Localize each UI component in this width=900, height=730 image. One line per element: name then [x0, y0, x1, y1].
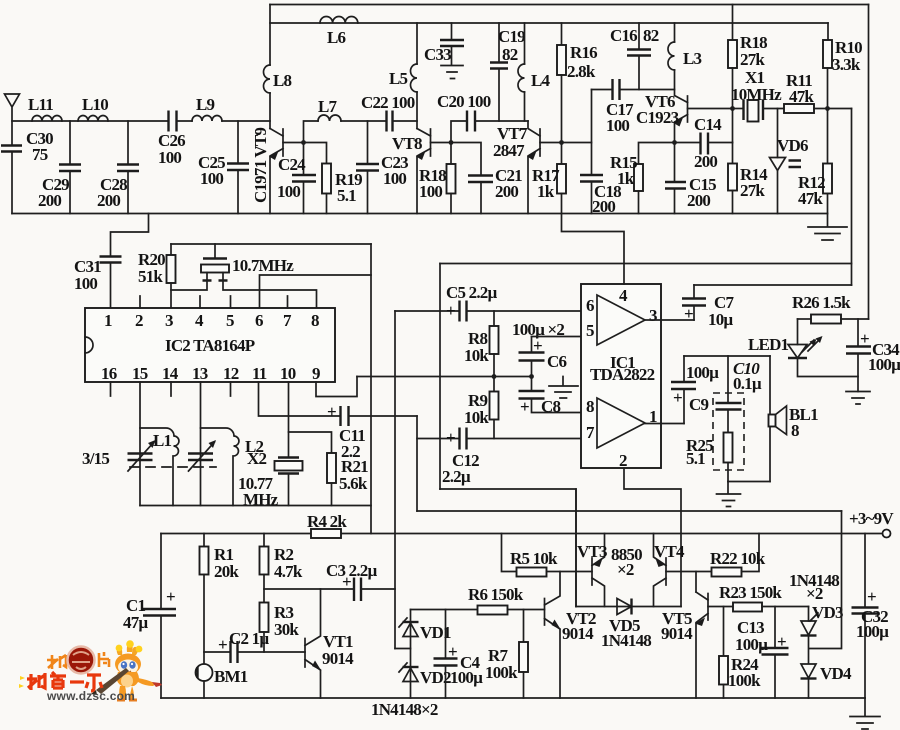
svg-text:R22 10k: R22 10k — [710, 549, 766, 568]
antenna — [5, 94, 20, 145]
inductor L3 — [674, 23, 676, 42]
svg-text:100k: 100k — [728, 671, 761, 690]
svg-text:C24: C24 — [278, 155, 306, 174]
capacitor C28 — [127, 121, 129, 164]
svg-text:200: 200 — [694, 152, 717, 171]
svg-text:C6: C6 — [547, 352, 566, 371]
capacitor C5 — [395, 310, 459, 312]
watermark small sparks — [19, 676, 25, 688]
wire L5 to VT8 — [416, 92, 418, 129]
terminal +3~9V — [883, 530, 891, 538]
resistor R18 (27k) — [732, 5, 734, 41]
svg-text:200: 200 — [38, 191, 61, 210]
LED LED1 — [797, 319, 799, 345]
wire pin13 tank line — [200, 382, 202, 506]
wire volume mid line — [357, 376, 532, 378]
svg-text:200: 200 — [495, 182, 518, 201]
transistor VT3 — [591, 558, 593, 585]
svg-text:2: 2 — [619, 451, 627, 470]
capacitor C9 — [683, 389, 685, 424]
svg-text:5: 5 — [586, 321, 594, 340]
svg-text:7: 7 — [586, 423, 595, 442]
resistor R16 — [561, 23, 563, 45]
wire TX riser to diodes — [395, 648, 411, 650]
svg-text:4: 4 — [619, 286, 628, 305]
svg-text:L8: L8 — [273, 71, 292, 90]
svg-text:X2: X2 — [247, 449, 266, 468]
svg-text:C9: C9 — [689, 395, 708, 414]
wire R6 line — [411, 609, 545, 611]
svg-text:LED1: LED1 — [748, 335, 789, 354]
node VT9 base junction — [301, 140, 306, 145]
svg-text:27k: 27k — [740, 181, 765, 200]
svg-text:C22 100: C22 100 — [361, 93, 415, 112]
transistor VT8 — [417, 129, 431, 137]
svg-text:L3: L3 — [683, 49, 702, 68]
svg-text:30k: 30k — [274, 620, 299, 639]
wire VT5 base line — [708, 606, 733, 608]
svg-text:47µ: 47µ — [123, 613, 148, 632]
ground C34 — [846, 392, 870, 405]
svg-text:R26 1.5k: R26 1.5k — [792, 293, 851, 312]
wire supply drop V1 — [851, 109, 853, 286]
capacitor C13 — [774, 607, 776, 649]
resistor R11 — [784, 104, 814, 113]
svg-text:2.2: 2.2 — [341, 442, 360, 461]
resistor R2 — [263, 534, 265, 547]
svg-text:C8: C8 — [541, 397, 560, 416]
svg-text:www.dzsc.com: www.dzsc.com — [46, 689, 135, 703]
svg-text:11: 11 — [252, 364, 267, 383]
svg-text:47k: 47k — [789, 87, 814, 106]
watermark magnifier stamp — [68, 647, 95, 674]
diode VD1 — [410, 610, 412, 699]
ground RF right — [808, 214, 847, 241]
svg-text:1: 1 — [104, 311, 112, 330]
wire IC2 right bypass — [370, 244, 372, 506]
svg-text:1N4148×2: 1N4148×2 — [371, 700, 438, 719]
svg-text:L9: L9 — [196, 95, 215, 114]
svg-text:14: 14 — [162, 364, 179, 383]
inductor L2 — [201, 428, 239, 506]
svg-text:0.1µ: 0.1µ — [733, 374, 762, 393]
svg-text:13: 13 — [192, 364, 208, 383]
IC1 box — [581, 284, 661, 468]
op-amp A2 — [597, 398, 645, 448]
svg-text:8: 8 — [586, 397, 594, 416]
wire pin9 to volume line — [316, 377, 357, 397]
diode VD5 — [576, 606, 681, 608]
capacitor C4 — [445, 610, 447, 659]
inductor L11 — [32, 116, 62, 122]
svg-text:L1: L1 — [153, 431, 172, 450]
svg-text:9014: 9014 — [562, 624, 594, 643]
svg-text:100µ: 100µ — [868, 355, 900, 374]
capacitor C33 — [451, 23, 453, 40]
transistor VT7 — [528, 121, 540, 136]
wire L9 to VT9 — [222, 120, 270, 122]
svg-text:+: + — [867, 587, 876, 606]
capacitor C10 dashed box — [713, 393, 744, 470]
capacitor C22 — [341, 120, 386, 122]
resistor R1 — [203, 534, 205, 547]
dashed coupling line — [130, 466, 216, 468]
svg-text:9014: 9014 — [661, 624, 693, 643]
wire C7 supply line H2 — [694, 284, 852, 286]
wire L8 to VT9 collector — [269, 93, 271, 129]
ceramic filter 10.7MHz — [214, 244, 216, 258]
crystal X1 — [733, 108, 744, 110]
diode VD4 — [801, 664, 816, 678]
svg-text:200: 200 — [687, 191, 710, 210]
svg-text:R16: R16 — [570, 43, 597, 62]
IC2 box — [85, 308, 335, 382]
crystal X2 — [278, 458, 299, 474]
resistor R7 — [523, 610, 525, 643]
capacitor C7 — [682, 299, 706, 306]
svg-text:C3 2.2µ: C3 2.2µ — [326, 561, 377, 580]
inductor L10 — [78, 116, 108, 122]
capacitor C19 — [498, 23, 500, 62]
capacitor C32 — [864, 534, 866, 608]
svg-text:100: 100 — [158, 148, 181, 167]
diode VD2 — [403, 666, 419, 668]
svg-text:TDA2822: TDA2822 — [590, 365, 655, 384]
resistor R14 — [732, 143, 734, 164]
svg-text:10: 10 — [280, 364, 296, 383]
resistor R15 — [639, 143, 675, 165]
node VT7 base — [559, 140, 564, 145]
svg-text:1k: 1k — [617, 169, 635, 188]
svg-text:C2 1µ: C2 1µ — [229, 629, 269, 648]
svg-text:100: 100 — [277, 182, 300, 201]
wire top supply rail — [270, 4, 869, 6]
resistor R17 — [561, 143, 563, 165]
svg-text:7: 7 — [283, 311, 292, 330]
resistor R20 — [170, 244, 172, 255]
svg-text:82: 82 — [502, 45, 518, 64]
svg-text:10MHz: 10MHz — [731, 85, 782, 104]
node VT6 emitter junction — [672, 140, 677, 145]
svg-text:9014: 9014 — [322, 649, 354, 668]
capacitor C25 — [237, 121, 239, 164]
svg-text:100: 100 — [74, 274, 97, 293]
svg-text:47k: 47k — [798, 189, 823, 208]
inductor L7 — [318, 115, 341, 121]
svg-text:C16: C16 — [610, 26, 637, 45]
svg-text:6: 6 — [255, 311, 263, 330]
svg-text:10k: 10k — [464, 346, 489, 365]
capacitor C8 — [531, 377, 533, 392]
svg-text:IC2 TA8164P: IC2 TA8164P — [165, 336, 255, 355]
svg-text:+: + — [166, 587, 175, 606]
inductor L4 — [524, 23, 526, 64]
svg-text:+: + — [218, 635, 227, 654]
svg-text:5.1: 5.1 — [686, 449, 705, 468]
svg-text:3: 3 — [649, 306, 657, 325]
wire RF bottom rail — [12, 213, 828, 215]
ground mid audio — [549, 377, 578, 399]
svg-text:3/15: 3/15 — [82, 449, 109, 468]
wire squelch drop left — [575, 489, 577, 607]
node VT8 base — [449, 140, 454, 145]
resistor R24 — [723, 607, 725, 657]
pin stubs top — [140, 296, 288, 308]
wire second supply line — [270, 22, 828, 24]
speaker BL1 — [769, 356, 771, 482]
svg-text:L10: L10 — [82, 95, 108, 114]
svg-text:×2: ×2 — [617, 560, 634, 579]
svg-text:1k: 1k — [537, 182, 555, 201]
wire audio box top edge — [440, 263, 852, 265]
wire VT4 base line — [666, 571, 712, 573]
watermark char pian — [99, 652, 109, 667]
svg-text:L7: L7 — [318, 97, 338, 116]
svg-text:1N4148: 1N4148 — [601, 631, 651, 650]
capacitor C21 — [468, 176, 493, 183]
wire TX audio riser — [394, 311, 396, 649]
wire audio box bottom edge — [440, 489, 576, 607]
svg-text:R23 150k: R23 150k — [719, 583, 782, 602]
svg-text:×2: ×2 — [806, 584, 823, 603]
capacitor C15 — [674, 143, 676, 183]
svg-text:200: 200 — [592, 197, 615, 216]
trimmer L2 left — [188, 454, 213, 461]
svg-text:10.7MHz: 10.7MHz — [232, 256, 294, 275]
resistor R23 — [733, 603, 762, 612]
transistor VT4 — [665, 558, 667, 585]
trimmer 3/15 — [128, 454, 153, 461]
capacitor C18 — [591, 90, 593, 176]
wire pin11 to C11 — [259, 382, 341, 416]
wire pin1 feed — [111, 214, 149, 257]
svg-text:5: 5 — [226, 311, 234, 330]
svg-text:100µ: 100µ — [856, 622, 889, 641]
watermark text weiku — [27, 672, 102, 691]
node R11 R10 junction — [825, 106, 830, 111]
wire L8 top lead — [269, 5, 271, 66]
svg-text:BM1: BM1 — [214, 667, 248, 686]
svg-text:15: 15 — [132, 364, 148, 383]
svg-text:2847: 2847 — [493, 141, 525, 160]
wire antenna filter line — [12, 120, 169, 122]
wire VT5 collector riser — [695, 572, 697, 593]
svg-text:C14: C14 — [694, 115, 722, 134]
svg-text:+: + — [520, 397, 529, 416]
node R8 R9 junction — [492, 374, 497, 379]
capacitor C12 — [417, 438, 459, 440]
resistor R26 — [798, 318, 812, 320]
inductor L9 — [192, 116, 222, 122]
svg-text:VT4: VT4 — [654, 542, 685, 561]
svg-text:+: + — [777, 632, 786, 651]
wire pin15 tank line — [139, 382, 141, 506]
svg-text:+: + — [327, 402, 336, 421]
wire pin3 output — [645, 319, 694, 321]
watermark mascot — [91, 640, 162, 700]
wire C11 audio drop — [416, 416, 418, 511]
capacitor C2 — [204, 651, 230, 653]
capacitor C17 — [592, 89, 613, 91]
resistor R25 — [727, 410, 729, 433]
resistor R22 — [712, 568, 742, 577]
svg-text:5.6k: 5.6k — [339, 474, 368, 493]
svg-text:100: 100 — [419, 182, 442, 201]
svg-text:100µ: 100µ — [450, 668, 483, 687]
svg-text:R6 150k: R6 150k — [468, 585, 524, 604]
svg-text:+: + — [446, 301, 455, 320]
wire pin4 supply — [562, 214, 625, 285]
wire pin5 line — [532, 336, 582, 338]
svg-text:10k: 10k — [464, 408, 489, 427]
inductor L5 — [416, 23, 418, 64]
resistor R18 (100) — [450, 143, 452, 165]
capacitor C34 — [857, 319, 859, 346]
transistor VT2 — [544, 599, 546, 626]
wire pin2 loop — [624, 468, 681, 607]
svg-text:4.7k: 4.7k — [274, 562, 303, 581]
svg-text:C5 2.2µ: C5 2.2µ — [446, 283, 497, 302]
svg-text:2.2µ: 2.2µ — [442, 467, 471, 486]
svg-text:C33: C33 — [424, 45, 451, 64]
svg-text:+: + — [860, 329, 869, 348]
microphone BM1 — [196, 664, 213, 681]
ground below C33 — [441, 66, 463, 79]
svg-text:20k: 20k — [214, 562, 239, 581]
resistor R3 — [260, 603, 269, 633]
svg-text:L5: L5 — [389, 69, 408, 88]
capacitor C24 — [303, 143, 305, 176]
svg-text:100µ: 100µ — [735, 635, 768, 654]
resistor R4 — [311, 529, 341, 538]
svg-text:9: 9 — [312, 364, 320, 383]
svg-text:8: 8 — [311, 311, 319, 330]
svg-text:VD3: VD3 — [812, 603, 843, 622]
svg-text:51k: 51k — [138, 267, 163, 286]
wire left edge — [160, 534, 162, 610]
resistor R19 — [304, 143, 327, 164]
wire main supply rail — [161, 533, 883, 535]
transistor VT6 — [675, 70, 688, 103]
svg-text:2: 2 — [135, 311, 143, 330]
wire pin6 line — [260, 275, 372, 308]
svg-text:C1971 VT9: C1971 VT9 — [251, 128, 270, 203]
svg-text:27k: 27k — [740, 50, 765, 69]
capacitor C23 — [367, 121, 369, 164]
svg-text:2.8k: 2.8k — [567, 62, 596, 81]
resistor R21 — [289, 432, 332, 453]
capacitor C11 — [341, 406, 349, 426]
capacitor C29 — [69, 121, 71, 164]
svg-text:R4 2k: R4 2k — [307, 512, 347, 531]
svg-text:6: 6 — [586, 296, 594, 315]
svg-text:100k: 100k — [485, 663, 518, 682]
svg-text:+: + — [684, 304, 693, 323]
resistor R12 — [827, 109, 829, 164]
inductor L8 — [264, 65, 271, 93]
svg-text:+: + — [446, 428, 455, 447]
wire bottom rail — [161, 697, 865, 699]
resistor R5 — [502, 534, 517, 572]
svg-text:100: 100 — [200, 169, 223, 188]
capacitor C14 — [675, 142, 701, 144]
svg-text:L6: L6 — [327, 28, 346, 47]
svg-text:10µ: 10µ — [708, 310, 733, 329]
wire audio box left edge — [439, 264, 441, 490]
svg-text:4: 4 — [195, 311, 204, 330]
transistor VT9 — [270, 129, 283, 137]
wire IC2 bottom rail — [140, 506, 371, 534]
svg-text:VT3: VT3 — [577, 542, 607, 561]
svg-text:+: + — [673, 388, 682, 407]
capacitor C26 — [169, 111, 177, 132]
node C6 C8 junction — [529, 374, 534, 379]
svg-text:VD4: VD4 — [820, 664, 852, 683]
resistor R10 — [827, 23, 829, 40]
wire pin1 output — [645, 423, 684, 425]
wire pin10 — [288, 382, 290, 458]
wire R2 R3 node line — [264, 588, 354, 590]
svg-text:12: 12 — [223, 364, 239, 383]
wire R25 to speaker — [728, 481, 770, 483]
svg-text:100µ: 100µ — [686, 363, 719, 382]
svg-text:16: 16 — [101, 364, 117, 383]
transistor VT5 — [707, 594, 709, 621]
wire IC2 local top rail — [171, 243, 371, 245]
op-amp A1 — [597, 295, 645, 345]
svg-text:100: 100 — [606, 116, 629, 135]
transistor VT1 — [304, 639, 306, 668]
pin stubs bottom — [111, 382, 231, 396]
svg-text:L11: L11 — [28, 95, 53, 114]
ground bottom right — [850, 698, 880, 729]
capacitor C20 — [451, 121, 467, 143]
wire right border down to R26 — [868, 5, 870, 320]
wire base node up to L7 — [304, 121, 319, 143]
svg-text:VD6: VD6 — [777, 136, 808, 155]
diode VD3 — [808, 607, 810, 622]
wire VD3 VD4 mid to line B — [809, 511, 842, 664]
svg-text:R5 10k: R5 10k — [510, 549, 558, 568]
capacitor C6 — [531, 337, 533, 353]
node X1 base junction — [730, 106, 735, 111]
svg-text:C19: C19 — [498, 27, 525, 46]
capacitor C31 — [100, 257, 122, 263]
svg-text:VT8: VT8 — [392, 134, 422, 153]
capacitor C16 — [638, 23, 640, 50]
resistor R6 — [478, 606, 508, 615]
svg-text:3.3k: 3.3k — [832, 55, 861, 74]
wire squelch line B — [417, 510, 842, 512]
svg-text:100: 100 — [383, 169, 406, 188]
svg-text:75: 75 — [32, 145, 48, 164]
inductor L1 — [140, 428, 179, 506]
capacitor C30 — [1, 146, 22, 152]
svg-text:C20 100: C20 100 — [437, 92, 491, 111]
svg-text:L4: L4 — [531, 71, 551, 90]
svg-text:C1923: C1923 — [636, 108, 679, 127]
svg-text:82: 82 — [643, 26, 659, 45]
inductor L6 — [320, 16, 358, 23]
resistor R8 — [493, 311, 495, 326]
ground speaker — [717, 482, 741, 507]
watermark char zhao — [47, 655, 66, 669]
resistor R9 — [493, 377, 495, 392]
svg-text:5.1: 5.1 — [337, 186, 356, 205]
wire speaker block top rail — [684, 355, 770, 357]
svg-text:+3~9V: +3~9V — [849, 509, 894, 528]
svg-text:3: 3 — [165, 311, 173, 330]
